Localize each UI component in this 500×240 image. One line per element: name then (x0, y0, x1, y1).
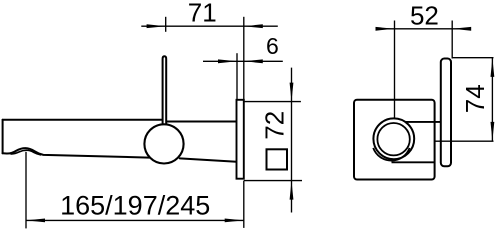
front view: knob outer circle (373, 118, 414, 159)
front view: knob inner circle (377, 123, 409, 155)
front view: cylinder tangent lines (405, 121, 440, 123)
lever (side view) (163, 56, 167, 126)
dimension 72 (244, 68, 302, 213)
svg-text:52: 52 (410, 0, 439, 30)
dimension 6 (203, 53, 283, 99)
square symbol (267, 149, 288, 169)
svg-text:72: 72 (260, 111, 290, 140)
svg-text:71: 71 (188, 0, 217, 28)
dimension 74 (435, 58, 494, 142)
dimension 165/197/245 (26, 152, 244, 229)
knob circle (side view) (144, 124, 183, 163)
spout outlet inner arc (11, 150, 42, 155)
svg-text:6: 6 (266, 33, 279, 59)
wall flange (side view) (237, 100, 244, 179)
svg-text:165/197/245: 165/197/245 (60, 191, 210, 221)
front view: square plate (354, 100, 435, 180)
dimension 71 (141, 17, 277, 100)
front view: lever bar (441, 59, 451, 167)
svg-text:74: 74 (460, 84, 490, 113)
front view: centerline / 52 left extension (394, 21, 396, 141)
front view: knob crescent arc (373, 148, 409, 161)
dimension 52 (376, 21, 471, 59)
spout body (side view) (3, 120, 237, 162)
